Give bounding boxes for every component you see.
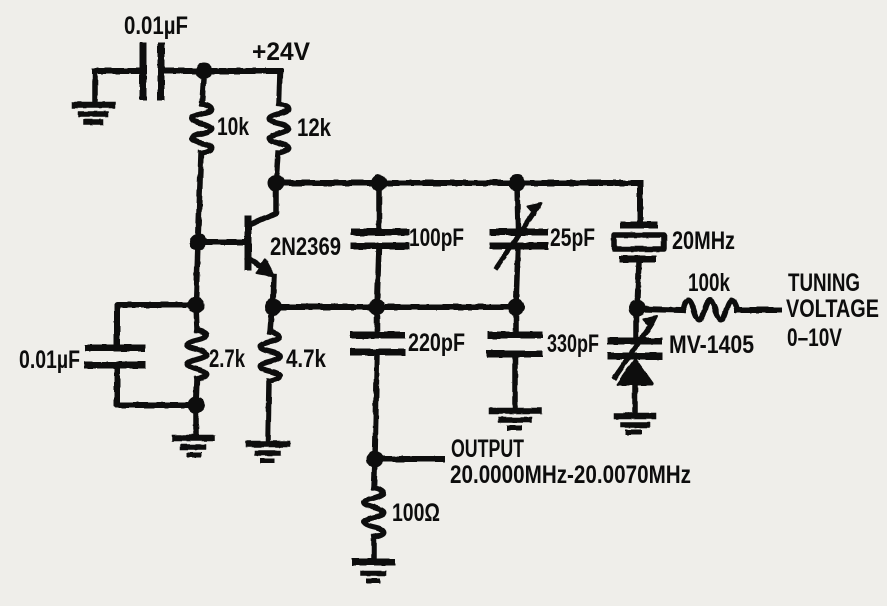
- wire top rail to C5: [517, 183, 518, 229]
- ground G4 (under 100ohm): [355, 562, 392, 581]
- wire C5 to emitter rail: [516, 246, 518, 307]
- svg-text:25pF: 25pF: [550, 224, 595, 252]
- wire base node down to bias network: [196, 242, 198, 305]
- wire C1 to node A: [161, 68, 204, 74]
- wire R1 to base node: [198, 153, 201, 242]
- wire R6 to tuning voltage: [737, 307, 779, 313]
- transistor Q1 2N2369: [198, 183, 276, 307]
- capacitor C5 25pF variable: [493, 203, 545, 267]
- varactor D1 MV-1405: [611, 308, 659, 413]
- node F (bias bottom): [188, 397, 205, 414]
- crystal Y1 20MHz: [614, 225, 664, 308]
- node I (output node): [367, 451, 384, 468]
- svg-text:100pF: 100pF: [409, 224, 464, 252]
- wire bias top bracket: [117, 305, 196, 346]
- wire C6 links: [515, 307, 516, 409]
- resistor R4 4.7k: [260, 332, 280, 381]
- svg-text:20.0000MHz-20.0070MHz: 20.0000MHz-20.0070MHz: [450, 461, 691, 489]
- wire node F to ground: [193, 405, 199, 435]
- node D (emitter node): [265, 299, 282, 316]
- ground G2 (under 2.7k): [175, 438, 212, 455]
- wire C3 to emitter rail: [377, 246, 379, 307]
- wire node L to R6: [637, 309, 683, 310]
- node E (bias top): [188, 297, 205, 314]
- wire output stub: [375, 456, 442, 462]
- wire C4 plates links: [375, 307, 377, 459]
- wire emitter rail: [273, 304, 517, 310]
- capacitor C1 0.01uF (top-left, vertical plates): [143, 46, 161, 97]
- wire bias bottom bracket: [117, 368, 196, 405]
- resistor R3 2.7k: [187, 330, 207, 379]
- node C (collector node): [268, 175, 285, 192]
- svg-text:10k: 10k: [217, 113, 249, 141]
- svg-text:OUTPUT: OUTPUT: [451, 435, 524, 463]
- ground G6 (under varactor): [617, 416, 653, 432]
- svg-text:VOLTAGE: VOLTAGE: [786, 295, 879, 323]
- resistor R5 100ohm: [364, 488, 384, 537]
- capacitor C6 330pF: [490, 335, 539, 354]
- node G (top rail / C3): [371, 175, 388, 192]
- resistor R6 100k: [683, 300, 737, 320]
- svg-text:12k: 12k: [297, 114, 331, 142]
- svg-text:0.01µF: 0.01µF: [124, 12, 188, 40]
- wire node A to R1: [202, 71, 204, 104]
- node A (supply/base divider junction): [196, 63, 213, 80]
- wire top rail corner to crystal: [637, 183, 643, 221]
- svg-text:20MHz: 20MHz: [672, 227, 735, 255]
- ground G3 (under 4.7k): [249, 444, 287, 461]
- wire ground to C1: [95, 68, 140, 74]
- wire R4 to ground: [268, 381, 269, 441]
- svg-text:0.01µF: 0.01µF: [19, 346, 80, 374]
- node K (emitter rail / C6): [508, 299, 525, 316]
- node B (base node): [190, 234, 207, 251]
- ground G5 (under 330pF): [492, 411, 539, 428]
- svg-text:100Ω: 100Ω: [392, 499, 440, 527]
- capacitor C2 0.01uF (bias bypass, horizontal plates): [88, 348, 142, 365]
- svg-text:220pF: 220pF: [408, 329, 465, 357]
- ground G1 (top-left): [75, 71, 112, 122]
- wire top rail to C3: [376, 183, 382, 229]
- node H (emitter rail / C4): [369, 299, 386, 316]
- wire 4.7k branch top: [270, 308, 272, 332]
- wire R5 to ground: [371, 537, 377, 558]
- wire R3 to bottom node: [196, 379, 197, 405]
- capacitor C4 220pF: [354, 335, 402, 352]
- svg-text:330pF: 330pF: [547, 330, 599, 358]
- wire top rail: [276, 180, 640, 186]
- svg-text:100k: 100k: [688, 269, 730, 297]
- svg-text:2N2369: 2N2369: [270, 233, 341, 261]
- resistor R1 10k: [192, 104, 212, 153]
- svg-text:+24V: +24V: [252, 38, 310, 66]
- node L (crystal / varactor / 100k junction): [629, 300, 646, 317]
- svg-text:4.7k: 4.7k: [286, 345, 326, 373]
- wire output node to R5: [374, 459, 375, 488]
- capacitor C3 100pF: [354, 232, 406, 246]
- wire +24V supply rail: [204, 68, 280, 74]
- svg-text:0–10V: 0–10V: [787, 324, 842, 352]
- resistor R2 12k: [269, 104, 289, 153]
- wire base node to R3: [196, 305, 197, 330]
- svg-text:2.7k: 2.7k: [209, 345, 245, 373]
- wire R2 to collector node: [276, 153, 278, 183]
- svg-text:TUNING: TUNING: [788, 269, 860, 297]
- svg-text:MV-1405: MV-1405: [669, 331, 754, 359]
- node J (top rail / C5 25pF): [509, 175, 526, 192]
- wire +24V to R2: [279, 71, 280, 104]
